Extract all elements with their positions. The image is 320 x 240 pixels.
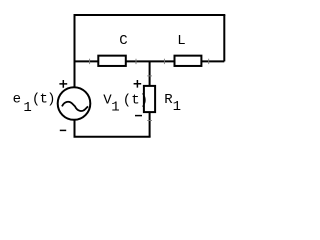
- pin tick: L left pin: [163, 59, 165, 64]
- source minus sign: [60, 129, 66, 131]
- wire: middle horizontal (C and L branch): [75, 60, 225, 62]
- svg-text:1: 1: [23, 100, 31, 116]
- wire: left vertical branch (source branch): [74, 15, 76, 137]
- pin tick: L right pin: [208, 59, 210, 64]
- R1 minus sign: [135, 115, 142, 117]
- resistor R1 (box symbol): [144, 86, 155, 112]
- wire: right vertical: [223, 15, 225, 61]
- wire: bottom horizontal: [74, 136, 151, 138]
- pin tick: C left pin: [89, 59, 91, 64]
- svg-text:(t): (t): [32, 92, 55, 108]
- pin tick: C right pin: [135, 59, 137, 64]
- R1 plus sign: [134, 80, 142, 88]
- wire: top horizontal: [74, 14, 226, 16]
- svg-text:C: C: [119, 33, 127, 49]
- capacitor C (box symbol): [98, 56, 126, 66]
- svg-text:(t): (t): [123, 93, 148, 109]
- wire: center vertical (R1 branch): [149, 61, 151, 136]
- source e1(t): circle: [58, 87, 91, 120]
- pin tick: R1 top pin: [147, 75, 152, 77]
- svg-text:L: L: [177, 33, 185, 49]
- inductor L (box symbol): [175, 56, 202, 66]
- svg-text:e: e: [13, 92, 21, 108]
- pin tick: R1 bottom pin: [147, 120, 152, 122]
- svg-text:1: 1: [173, 99, 181, 115]
- source e1(t): sine wave: [62, 102, 88, 111]
- svg-text:1: 1: [111, 100, 119, 116]
- source plus sign: [59, 80, 67, 88]
